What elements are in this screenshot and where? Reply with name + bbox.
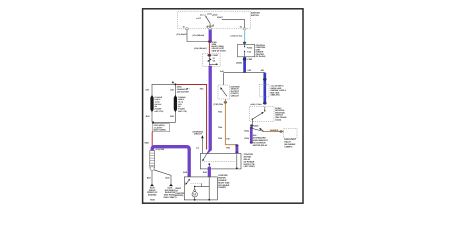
position label OFF [196,17,201,20]
ignition ref text [231,85,240,97]
fuse 17 label [213,54,219,62]
position label START [217,16,224,19]
relay coil pigtail (purple) [235,144,238,153]
drop to fusible link B [174,84,176,95]
drop to fusible link A [151,84,153,95]
svg-text:DIST CTR): DIST CTR) [155,110,164,113]
branch arrow inside fuse box [209,63,218,65]
border frame [143,9,303,203]
ground G100 [150,184,154,186]
svg-text:B3: B3 [240,26,242,29]
relay contact dot [208,163,210,165]
svg-text:TAN: TAN [218,137,223,140]
battery post circle [150,166,154,170]
svg-text:BLK: BLK [147,177,152,180]
start signal wire (blue) [243,57,246,73]
motor terminal circle [194,190,196,192]
drop from link A [151,112,153,123]
terminal B1 oval [183,26,189,30]
pnp output wire [251,119,253,124]
svg-text:TAN/RED: TAN/RED [270,129,279,132]
wire ignition feed (purple) [209,30,212,41]
connector oval on blue [243,58,246,60]
fuse 17 junction block (dashed) [203,53,221,66]
solenoid ground wire [208,177,210,201]
charging circuit note [192,130,203,135]
wire from terminal B1 [187,30,208,42]
connector oval [263,78,266,80]
main ignition run wire (purple) [209,66,212,151]
solenoid lever [185,180,189,185]
connector C202 oval [208,40,217,44]
svg-text:BLK: BLK [166,177,171,180]
cluster text [271,85,287,97]
svg-text:FUSE: FUSE [247,46,253,49]
motor feed junction [194,186,201,190]
rotary contact T symbol [206,23,214,29]
branch drop to ref box [223,73,225,85]
svg-text:CIRCUIT: CIRCUIT [231,95,240,98]
connector cap [263,102,266,104]
bottom rail junction dot [152,121,154,123]
ignition switch housing (dashed) [178,11,251,29]
ground wire 1 [151,171,153,184]
connector oval [250,125,253,127]
start wire (tan) [225,99,237,145]
interlock link wire [252,128,264,131]
ground G101 [169,184,173,186]
starter motor box [184,177,217,200]
rail junction dot [174,83,176,85]
svg-text:(A14) RED: (A14) RED [156,148,165,151]
svg-text:LEFT SIDE): LEFT SIDE) [244,165,255,168]
pnp switch contacts [252,107,266,120]
drop from link B [174,112,176,123]
svg-text:(1035) LT BLU: (1035) LT BLU [250,103,262,106]
run-start relay text [284,138,296,148]
cluster feed wire (blue) [263,73,266,104]
svg-text:+: + [189,88,190,91]
svg-text:TAN: TAN [226,147,231,150]
ignition switch lever [206,16,211,23]
svg-text:M: M [193,193,196,197]
relay coil drop [236,154,238,169]
svg-text:OFF: OFF [197,17,201,20]
svg-text:COMPT): COMPT) [218,186,226,189]
svg-text:OF DASH): OF DASH) [256,55,266,58]
svg-text:(1035): (1035) [236,61,242,64]
svg-text:COMPT): COMPT) [284,145,292,148]
fusible link A text [155,96,164,113]
svg-text:(370) R/WHT: (370) R/WHT [176,33,187,36]
svg-text:AXLE): AXLE) [275,118,281,121]
svg-text:(T41): (T41) [244,129,249,132]
central control unit fuse box [238,44,255,56]
incoming power arrowhead [172,81,174,84]
interlock switch lever [259,128,264,132]
solenoid dashed link [190,182,201,184]
svg-text:(1035) LT BLU: (1035) LT BLU [231,35,243,38]
relay lever contact [202,154,206,162]
svg-text:(370) RED/WH: (370) RED/WH [193,34,205,37]
svg-text:RED: RED [145,142,150,145]
svg-text:DIST CTR): DIST CTR) [178,110,187,113]
position label ACC [200,14,206,17]
svg-text:TAN: TAN [218,126,223,129]
fusible link B text [178,96,187,113]
pnp text [275,107,287,122]
terminal B3 oval [240,26,247,30]
starter motor M [192,192,197,197]
wire from rail to battery [152,122,154,132]
wire red to battery [151,132,153,148]
terminal A7 oval [208,28,211,30]
position label LOCK [207,12,213,15]
starter relay box [200,154,241,169]
svg-text:(T42): (T42) [244,137,249,140]
power distribution top rail [152,83,176,85]
svg-text:AND BATTERY: AND BATTERY [177,90,190,93]
power distribution ref text [177,86,191,94]
ground G100 text [147,187,158,202]
start pigtail (purple) [250,127,253,144]
cluster box (dashed) [259,84,269,97]
motor ground stub [194,197,196,201]
relay dashed link [204,161,236,163]
start branch rail [224,72,265,74]
wire red/wht thin [208,42,210,54]
ignition switch label [251,11,260,16]
ground G101 text [164,187,177,199]
fusible link A [151,95,154,112]
svg-text:LOCK: LOCK [207,12,213,15]
svg-text:B1: B1 [183,26,185,29]
svg-text:CIRCUIT: CIRCUIT [194,133,203,136]
svg-text:START: START [217,16,224,19]
battery [150,151,155,168]
svg-text:MOTOR): MOTOR) [175,194,183,197]
relay output wire (purple) [208,167,211,177]
ignition start wire (lt blu) [244,30,246,42]
svg-text:MOTOR RELAY: MOTOR RELAY [253,144,268,147]
funnel into starter relay [206,150,212,154]
central control unit text [256,44,267,58]
bottom rail [153,121,176,123]
starter motor relay text [244,153,256,168]
connector oval on tan [224,101,227,103]
position label RUN [212,14,218,17]
charging circuit feed wire (red) [176,84,206,147]
svg-text:SWITCH: SWITCH [251,14,259,17]
svg-text:7.5A: 7.5A [247,50,252,53]
fuse 17 element [207,57,211,66]
connector oval on red wire [208,54,212,56]
svg-text:(370) RED/WHT: (370) RED/WHT [194,47,208,50]
starter motor text [218,174,230,189]
interlock wire (tan) [264,131,284,133]
svg-text:SIDE OF DASH: SIDE OF DASH [212,49,227,52]
svg-text:(ENG HARN): (ENG HARN) [154,129,166,132]
svg-text:SIMILAR): SIMILAR) [271,94,280,97]
run-start relay box (dashed) [284,128,297,138]
park/neutral switch box (dashed) [250,107,274,122]
svg-text:(T40) TAN: (T40) TAN [214,103,224,106]
start contact feed wire to terminal B3 [222,20,245,29]
svg-text:ENGINE): ENGINE) [148,194,157,197]
splice S18 text [253,134,269,147]
ccu fuse label [247,46,253,53]
connector oval [243,42,246,44]
svg-text:FUSE: FUSE [213,54,219,57]
fusible link B [174,95,177,112]
ground wire 2 [154,170,171,184]
solenoid contact dot [188,179,190,181]
solenoid linkage [201,183,209,186]
splice S204 text [212,43,227,52]
battery feed wire (purple) to starter [152,147,189,177]
red wire end arrow [206,148,208,150]
svg-text:TAN: TAN [218,111,223,114]
ignition ref box (dashed) [218,85,230,99]
starter case note [175,187,185,197]
connector C100 box [152,124,169,132]
connector oval [280,130,283,132]
ccu terminals [244,44,246,56]
charging circuit arrow [201,135,204,153]
relay output stub [208,164,210,167]
